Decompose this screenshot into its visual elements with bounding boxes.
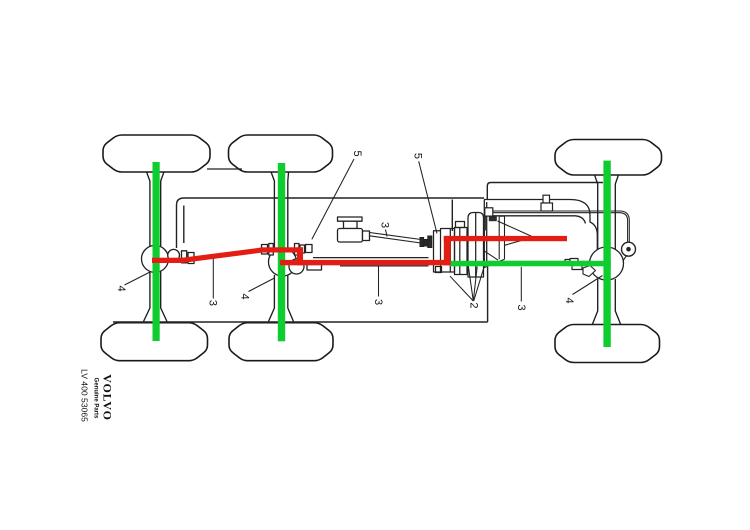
leader line label4 axle1	[125, 272, 151, 285]
rotated number labels	[115, 150, 575, 310]
leader line label3 pto	[386, 230, 388, 237]
svg-text:3: 3	[206, 300, 218, 306]
tire rear-top-middle	[229, 135, 333, 172]
PTO shaft	[370, 233, 422, 244]
input flange axle 1	[168, 249, 180, 261]
svg-text:5: 5	[411, 153, 423, 159]
bracket on bell housing top	[489, 216, 497, 221]
pipe fitting	[485, 208, 493, 216]
engine right edge and bulge	[588, 215, 598, 262]
tire rear-bottom-left	[101, 323, 208, 361]
leader V upper	[498, 221, 532, 236]
red top segment over engine	[444, 236, 567, 241]
green axle highlight front	[603, 161, 610, 347]
red driveline path	[152, 236, 567, 265]
front axle beam upper	[595, 175, 598, 249]
leader V lower	[505, 238, 531, 245]
engine block	[484, 200, 597, 269]
diagonal to post bottom	[485, 259, 505, 267]
green axle highlight 1	[153, 162, 160, 341]
svg-text:4: 4	[115, 285, 127, 291]
clutch bell housing	[468, 213, 484, 278]
PTO unit	[338, 217, 370, 242]
axle 1 beam upper	[147, 172, 150, 246]
crossmember vertical at gearbox	[451, 200, 453, 232]
leader line label5 second	[419, 161, 437, 233]
frame top line	[177, 198, 485, 248]
engine front details	[485, 216, 532, 267]
red segment to axle2	[262, 247, 303, 252]
green drive line horizontal	[450, 261, 611, 267]
dipstick post	[499, 216, 504, 259]
gearbox	[434, 222, 468, 275]
red diagonal shaft	[182, 247, 263, 263]
engine left edge hatch	[484, 215, 486, 231]
fuel pipe above engine	[485, 211, 630, 242]
tire rear-bottom-middle	[229, 323, 333, 361]
air inlet on engine top	[541, 195, 553, 211]
svg-text:3: 3	[372, 299, 384, 305]
leader line label3 first	[212, 258, 214, 299]
differential axle 1	[142, 245, 169, 272]
svg-text:4: 4	[563, 297, 575, 303]
tie rod parts left of front axle	[565, 259, 596, 277]
svg-text:3: 3	[515, 304, 527, 310]
axle 2 beam upper	[271, 172, 274, 249]
svg-text:Genuine Parts: Genuine Parts	[93, 378, 99, 419]
engine left edge double	[483, 200, 485, 269]
front axle beam lower	[593, 279, 598, 324]
frame bottom line	[113, 321, 488, 323]
front axle center housing	[590, 247, 624, 280]
green axle highlight 2	[278, 163, 285, 341]
leader line label3 second	[378, 266, 380, 297]
axle 1 beam lower	[144, 272, 150, 322]
engine mount diagonal	[484, 251, 498, 260]
flange plate below shaft	[307, 265, 322, 271]
leader lines label2	[450, 266, 484, 301]
red vertical rise at gearbox	[444, 236, 451, 265]
red vertical drop at axle2	[297, 247, 303, 265]
propeller shaft under red (axle2 to gearbox)	[313, 258, 429, 266]
steering damper circle	[622, 242, 636, 256]
red long segment axle2 to gearbox	[280, 260, 451, 265]
svg-text:LV 400 53065: LV 400 53065	[79, 369, 89, 422]
coupling plates axle 1	[182, 251, 187, 263]
frame front riser and widened front line	[487, 183, 603, 200]
frame inner left edge	[183, 206, 185, 244]
tire front-top	[555, 140, 662, 176]
differential axle 2	[269, 248, 297, 276]
engine block inner top line	[487, 216, 586, 224]
tire front-bottom	[555, 325, 660, 363]
link from circle to axle	[622, 256, 627, 262]
coupling plates axle 2 left	[262, 245, 268, 255]
red segment axle1 output	[152, 258, 183, 263]
leader line label4 axle2	[249, 278, 275, 292]
svg-text:VOLVO: VOLVO	[100, 374, 114, 420]
frame vertical at gearbox rear	[487, 267, 489, 322]
universal joint at gearbox input	[420, 236, 432, 248]
flange axle 2 lower	[289, 259, 304, 274]
engine top line	[484, 200, 590, 216]
bogie connector between top wheels	[207, 168, 242, 170]
svg-text:2: 2	[467, 302, 479, 308]
svg-text:5: 5	[351, 150, 363, 156]
VOLVO logotype block	[79, 369, 114, 422]
chassis frame	[113, 169, 603, 322]
leader line label3 third	[520, 267, 522, 302]
axle 2 beam lower	[269, 275, 275, 322]
svg-text:4: 4	[239, 293, 251, 299]
engine bottom	[487, 261, 588, 263]
leader line label4 front	[573, 276, 603, 295]
svg-text:3: 3	[379, 222, 391, 228]
leader line label5 first	[312, 159, 354, 239]
tire rear-top-left	[103, 135, 210, 172]
coupling plates axle 2 right	[295, 244, 300, 256]
